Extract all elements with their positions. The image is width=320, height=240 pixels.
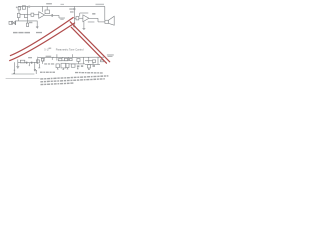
ground G7	[67, 68, 69, 69]
wire top rail top circuit	[18, 5, 105, 7]
label output net	[88, 21, 95, 22]
wire lower link	[58, 60, 69, 62]
input jack J1	[9, 21, 16, 25]
resistor R15	[64, 58, 67, 61]
label R10 value	[28, 57, 32, 58]
junction dot rail 2	[75, 56, 78, 59]
red annotation stroke A2	[10, 23, 75, 61]
resistor R10	[20, 60, 25, 63]
junction node F	[72, 54, 73, 58]
wire stub R21 bottom	[92, 62, 94, 64]
resistor R4	[31, 13, 39, 16]
label R13 value	[46, 56, 52, 57]
resistor R16	[77, 59, 80, 62]
wire stub node D	[51, 57, 53, 60]
wire left column riser	[13, 62, 15, 74]
ground G5	[57, 68, 59, 70]
separator rule	[6, 78, 40, 80]
capacitor C14	[93, 64, 96, 67]
junction dot rail 3	[87, 56, 90, 59]
label L7	[92, 13, 95, 15]
capacitor C11	[30, 62, 33, 64]
wire crossing riser	[56, 54, 58, 60]
ground G8	[77, 67, 79, 69]
parts row 1	[40, 75, 108, 79]
junction dot rail 1	[61, 56, 64, 59]
resistor R1	[18, 6, 21, 9]
caption figure top b	[36, 32, 42, 33]
feedback network R5	[45, 6, 49, 13]
wire drop node B	[59, 15, 65, 18]
parts row 2	[40, 78, 104, 82]
wire stub R16 bottom	[77, 61, 79, 64]
label R7 value	[70, 11, 74, 12]
op-amp U1	[39, 12, 45, 19]
op-amp U2	[83, 15, 89, 22]
caption figure top	[13, 32, 30, 33]
label C3 value	[29, 22, 32, 23]
resistor R20	[88, 65, 91, 68]
capacitor C10	[25, 62, 28, 64]
capacitor C6 polarized	[73, 6, 75, 26]
resistor R6	[74, 17, 83, 20]
red annotation stroke B1	[70, 22, 110, 62]
label pin row left	[40, 72, 55, 73]
wire dropper node E	[68, 57, 70, 60]
parts row 3	[40, 82, 73, 85]
wire U2 output	[89, 18, 105, 22]
wire bottom rail	[12, 73, 35, 75]
ground G2	[73, 25, 76, 28]
resistor R12 dropper	[38, 64, 40, 68]
label C6 value	[69, 8, 73, 9]
label pin row right	[75, 72, 103, 74]
wire mid link	[69, 63, 85, 65]
ground G4	[16, 67, 19, 69]
wire top rail bottom circuit	[38, 56, 104, 58]
IC1 box	[61, 63, 66, 68]
capacitor C13	[77, 65, 80, 68]
wire divider	[27, 6, 29, 14]
label node B	[60, 19, 63, 20]
red annotation stroke A1	[10, 18, 73, 56]
label output right line1	[107, 54, 114, 55]
resistor R19	[71, 64, 75, 67]
bottom circuit input riser	[17, 60, 19, 67]
label R3	[28, 6, 30, 8]
wire top feed right	[104, 6, 106, 20]
output pad	[101, 60, 104, 62]
resistor R18	[66, 64, 69, 68]
label R5 value	[46, 3, 52, 4]
junction dot node D	[53, 57, 54, 58]
wire bottom rail top circuit	[16, 20, 38, 22]
wire dropper node H	[88, 57, 90, 63]
label output right line2	[108, 56, 113, 57]
wire output stub	[100, 59, 104, 61]
parts list paragraph	[40, 75, 108, 85]
red annotation stroke B2	[71, 27, 106, 63]
resistor R21	[93, 60, 96, 63]
label page ref	[49, 48, 52, 49]
wire U2 feedback	[80, 13, 89, 17]
capacitor C16	[81, 65, 83, 68]
potentiometer P1	[41, 58, 44, 64]
resistor R2	[17, 10, 20, 21]
label mid top	[61, 4, 65, 5]
wire U1 output	[45, 14, 52, 16]
wire dropper node G	[83, 57, 85, 64]
wire input bus	[18, 62, 38, 64]
capacitor C5	[52, 14, 59, 17]
wire dropper node I	[97, 57, 99, 64]
ground G3	[83, 22, 86, 29]
ground G1	[36, 21, 39, 29]
wire to U1 inverting input	[28, 14, 32, 16]
resistor R11	[36, 60, 39, 63]
wire riser node C	[37, 57, 39, 64]
svg-text:5-17: 5-17	[44, 47, 50, 51]
label mid row	[44, 63, 54, 64]
wire U1 feedback riser	[41, 6, 43, 11]
wire stub R14 top	[62, 56, 64, 59]
capacitor C3	[26, 21, 28, 27]
wire link R21	[85, 60, 93, 62]
svg-text:Parametric Tone Control: Parametric Tone Control	[56, 47, 84, 51]
resistor R14	[59, 58, 62, 61]
node stub	[29, 63, 30, 66]
resistor R17	[56, 64, 59, 68]
resistor R22	[70, 58, 73, 60]
label R1	[16, 7, 18, 9]
capacitor C2	[20, 14, 28, 21]
speaker SPK	[105, 16, 114, 25]
ground G6	[63, 68, 65, 69]
capacitor C15 blob	[36, 70, 37, 74]
capacitor C12 dropper	[34, 62, 36, 71]
resistor R3	[22, 6, 25, 9]
label top right	[96, 4, 105, 5]
wire lower rail right	[85, 64, 100, 66]
ground G9	[88, 68, 90, 70]
